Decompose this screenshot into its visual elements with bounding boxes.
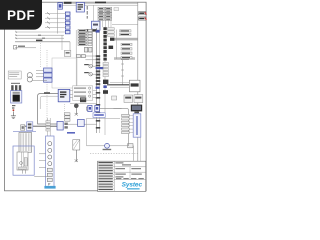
right rows band dark box [110, 38, 114, 41]
blue module U2 [92, 21, 101, 30]
terminal strip X2 text [79, 30, 86, 45]
dotted vertical x64 [63, 104, 65, 120]
motor M1 circles [27, 73, 32, 78]
wire pair to bus [85, 55, 96, 57]
stems connector [129, 116, 133, 133]
dashed wire y153 [90, 153, 139, 155]
bus B1 blue mark lower [96, 87, 100, 89]
tiny box right of grid [114, 8, 119, 11]
right rows vertical wire [115, 30, 117, 59]
bus B1 blue mark [96, 67, 104, 69]
wire loop top right of PC [100, 108, 129, 146]
top bus wire 2 [60, 4, 138, 6]
vertical bus B2 dark column [103, 27, 106, 60]
bus B1 blue node top [96, 30, 100, 32]
wires from U3 to bus [70, 94, 97, 96]
feeder label N [36, 40, 42, 42]
right row bar 1 [120, 30, 132, 32]
blue module U4 top [76, 2, 84, 12]
fuse F1 (blue box) [65, 12, 70, 15]
fuse F2 (blue box) [65, 17, 70, 20]
N drop wire [69, 42, 71, 51]
wire connector to title block [139, 137, 141, 161]
process line [70, 103, 97, 105]
title block left text bars [98, 162, 112, 190]
wire vertical from K1 [57, 9, 59, 33]
ground symbol [11, 111, 16, 118]
feeder tick L1 [16, 34, 18, 36]
legend box with bullets [73, 86, 93, 101]
bus B2 dark blob 3 [103, 90, 108, 94]
right dark box mid [109, 46, 114, 49]
wire right from cluster [66, 123, 97, 125]
terminal column mid [65, 113, 70, 121]
wire to F3 [45, 22, 65, 24]
vertical bus B1 [96, 28, 98, 133]
fuse F5 (blue box) [65, 30, 70, 33]
thick line to flag [107, 84, 129, 86]
component X hatched [73, 140, 80, 162]
title block [98, 161, 146, 191]
contactor group Q1 [11, 83, 21, 91]
small box right of valve [86, 107, 90, 110]
wire to F2 [45, 17, 65, 19]
relay cluster K2 [84, 47, 92, 52]
red indicator [13, 109, 15, 111]
sheet background [0, 0, 149, 198]
text under instrument [103, 149, 112, 150]
right revision column line [137, 2, 139, 191]
left feeder symbol [13, 46, 16, 49]
vertical wire x92.6 [92, 28, 94, 66]
title block right text bars [115, 162, 143, 179]
terminal strip X2 rows [78, 29, 92, 45]
right rows next to B2 [108, 28, 115, 37]
box cluster above PC [124, 95, 143, 103]
pump P1 (dark box) [80, 97, 86, 102]
Systec tagline [127, 188, 140, 189]
wire down to flag [121, 60, 124, 85]
left note box [8, 71, 21, 79]
svg-text:PDF: PDF [7, 8, 35, 23]
cable label marks [87, 6, 88, 19]
breaker tick 3 [47, 21, 50, 24]
left feeder wire L2 [15, 37, 64, 39]
line mark L2 [42, 38, 45, 39]
enclosure rect K [52, 58, 77, 88]
wire from M1 [32, 80, 47, 82]
right row bar 4 [121, 48, 132, 50]
dashed drop to transformer [40, 43, 42, 68]
N drop box [64, 50, 70, 56]
terminal block X1 grid (top right) [98, 7, 112, 20]
valve V1 [74, 104, 79, 116]
blue enclosure bottom-left [13, 146, 34, 175]
svg-text:Systec: Systec [122, 182, 143, 189]
fuse symbol F7 [84, 64, 92, 68]
wire into terminals top [113, 107, 121, 109]
bus B2 row boxes [103, 62, 108, 76]
controller U3 (blue box) [58, 89, 70, 101]
right row bar 3 [121, 43, 132, 45]
blue horizontal line through cabinet [13, 130, 36, 132]
PC monitor [131, 105, 142, 114]
blue box Y [78, 119, 85, 126]
blue sensor box B [95, 105, 100, 111]
relay K1 (blue, top) [58, 3, 63, 10]
cabinet hatched top [19, 133, 32, 153]
blue annotation text [67, 132, 75, 134]
wire mid-right horizontal [112, 24, 138, 26]
PDF badge [0, 0, 42, 30]
feeder tick 5 [16, 31, 18, 33]
terminal block X1 text marks [99, 8, 110, 20]
bus B2 dark blob 2 [103, 80, 108, 84]
bus B2 blue dot 2 [103, 85, 106, 88]
dashed vertical wire x47 [46, 50, 48, 68]
right rows band [110, 38, 138, 41]
feeder tick L2 [16, 37, 18, 39]
dark wire to cabinet [22, 125, 57, 127]
line mark L1 [38, 35, 41, 36]
top bus label [95, 2, 106, 4]
top bus wire 1 [60, 2, 138, 4]
right row bar 6 [121, 56, 132, 58]
stack left stub wires [39, 153, 46, 155]
fuse F4 (blue box) [65, 26, 70, 29]
gray band right mid [114, 57, 135, 60]
blue sensor box A [88, 105, 92, 111]
right row bar 5 [121, 52, 132, 54]
small marks below D1 [12, 105, 15, 109]
enclosure line left-bottom-right [86, 118, 88, 145]
sheet border frame [5, 2, 147, 191]
thin lines beside thick [110, 82, 129, 84]
title block left rows [98, 164, 115, 188]
bus B2 line lower [104, 60, 106, 135]
junction cluster bottom-center-left [57, 121, 68, 130]
dark bus bar [84, 29, 97, 31]
right row bar 2 [120, 33, 132, 35]
relay K1 label [64, 2, 72, 4]
small label above corner [44, 92, 50, 93]
revision label box 2 [139, 17, 147, 20]
small instrument box [112, 96, 117, 100]
conduit corner wires [38, 94, 58, 124]
terminal column above stack [46, 118, 50, 136]
small boxes above cabinet [21, 125, 25, 130]
breaker tick 2 [47, 17, 50, 20]
terminal rows to connector [122, 114, 130, 133]
wire y118 [87, 117, 121, 119]
breaker tick 4 [47, 26, 50, 29]
left feeder wire L1 [15, 34, 64, 36]
wire above legend [70, 90, 97, 92]
vertical wire x76 [75, 30, 77, 98]
fuse row F6 [76, 55, 85, 58]
breaker tick 1 [47, 12, 50, 15]
small box on wire [128, 144, 133, 148]
device D1 (blue frame, black fill) [11, 91, 22, 103]
flow device stack (blue tall box with circles) [46, 136, 54, 188]
revision label box 1 [139, 12, 147, 15]
cabinet legs [22, 170, 24, 174]
bus B1 terminal marks (dense y60-88) [96, 55, 100, 128]
transformer T1 (blue stack) [44, 68, 52, 82]
wire to F4 [45, 26, 65, 28]
wires to T1 [36, 69, 44, 71]
blue connector box vertical [133, 114, 141, 137]
wire below blue enclosure [34, 175, 47, 177]
fuse wires to bus [92, 65, 96, 67]
inner tank box [17, 152, 28, 170]
fuse F3 (blue box) [65, 21, 70, 24]
left feeder wire L3 [15, 47, 36, 49]
blue label wide [93, 113, 105, 118]
fuse symbol F8 [84, 72, 92, 76]
wire y146 bottom-right [87, 146, 134, 161]
left feeder label L3 [18, 46, 25, 47]
blue label under stack [44, 186, 55, 189]
flag component [129, 80, 140, 92]
vertical wire x62 [61, 35, 63, 50]
grid drop wires [100, 20, 112, 27]
left feeder wire N [15, 41, 70, 43]
wire top-right vertical [93, 5, 95, 21]
wire to F1 [45, 13, 65, 15]
inline blue instrument [105, 143, 110, 148]
wire to F5 [15, 31, 65, 33]
gray band dark center [121, 58, 129, 60]
